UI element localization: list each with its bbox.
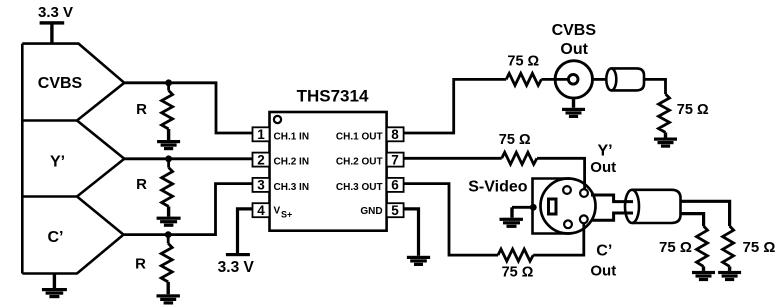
pin 8 box <box>387 127 404 141</box>
resistor 75ohm CH2 <box>502 152 537 164</box>
pin 1 box <box>253 127 270 141</box>
ground RCA <box>562 98 585 118</box>
prong upper S-Video to cable <box>591 195 633 202</box>
connector CVBS Out RCA jack <box>555 61 592 98</box>
node CVBS/R junction <box>165 79 172 86</box>
key slot <box>549 199 557 214</box>
svg-text:C’: C’ <box>48 229 64 246</box>
svg-text:8: 8 <box>391 127 399 142</box>
resistor R1 <box>162 83 173 140</box>
svg-text:THS7314: THS7314 <box>297 87 369 106</box>
svg-text:4: 4 <box>257 203 265 218</box>
wire VS+ pin 4 to 3.3V <box>238 209 253 253</box>
svg-text:3.3 V: 3.3 V <box>38 4 73 21</box>
resistor R2 <box>162 159 173 217</box>
op-amp U1 THS7314 body <box>270 112 387 231</box>
node Y'/R junction <box>165 155 172 162</box>
svg-text:S-Video: S-Video <box>468 178 528 195</box>
pin 2 box <box>253 153 270 167</box>
ground R3 <box>157 294 180 304</box>
connector S-Video DIN circle <box>541 179 596 234</box>
pin 5 box <box>387 203 404 217</box>
svg-text:V: V <box>274 206 281 217</box>
svg-text:GND: GND <box>360 206 382 217</box>
svg-text:R: R <box>135 255 146 272</box>
ground far load <box>718 271 741 281</box>
svg-text:Out: Out <box>590 263 616 280</box>
cable CVBS coax <box>606 68 644 90</box>
svg-text:Out: Out <box>590 159 616 176</box>
pin 7 box <box>387 153 404 167</box>
wire cable to near load <box>681 214 704 226</box>
svg-text:6: 6 <box>391 178 399 193</box>
svg-text:3: 3 <box>257 178 265 193</box>
wire resistor to RCA <box>541 78 573 81</box>
resistor 75ohm near load <box>697 226 708 271</box>
node C'/R junction <box>165 231 172 238</box>
wire cable to load <box>644 79 666 94</box>
svg-text:S+: S+ <box>281 210 292 220</box>
svg-text:2: 2 <box>257 152 265 167</box>
wire C' to pin 3 <box>124 184 253 235</box>
prong lower S-Video to cable <box>591 213 633 220</box>
svg-text:CH.3 OUT: CH.3 OUT <box>336 182 383 193</box>
pin 6 box <box>387 178 404 192</box>
svg-text:75 Ω: 75 Ω <box>507 54 539 70</box>
pin top right <box>580 189 588 197</box>
ground CVBS load <box>654 138 677 148</box>
label C' Out <box>590 242 616 279</box>
svg-text:75 Ω: 75 Ω <box>499 132 531 148</box>
source block CVBS/Y'/C' <box>22 44 124 274</box>
ground near load <box>692 271 715 281</box>
resistor 75ohm CVBS load <box>659 94 670 133</box>
svg-text:1: 1 <box>257 127 265 142</box>
wire cable to far load <box>681 201 730 226</box>
wire pin 5 GND <box>404 209 419 256</box>
svg-text:75 Ω: 75 Ω <box>659 239 692 256</box>
pin 4 box <box>253 203 270 217</box>
svg-text:Y’: Y’ <box>50 154 65 171</box>
svg-text:Y’: Y’ <box>597 142 612 159</box>
svg-text:3.3 V: 3.3 V <box>218 259 255 276</box>
resistor 75ohm far load <box>723 226 734 271</box>
pin 1 indicator <box>274 116 281 123</box>
wire RCA to cable <box>592 78 607 81</box>
pin bottom right <box>580 215 588 223</box>
svg-text:CH.2 OUT: CH.2 OUT <box>336 157 383 168</box>
cable S-Video body <box>625 190 681 223</box>
ground R1 <box>157 140 180 150</box>
node S-Video ground junction <box>530 204 537 211</box>
pin Y' out (top left) <box>563 186 571 194</box>
wire Y' to pin 2 <box>124 157 252 160</box>
svg-text:5: 5 <box>391 203 399 218</box>
pin bottom left <box>564 220 572 228</box>
label CVBS Out <box>552 22 597 58</box>
svg-text:CVBS: CVBS <box>38 75 83 92</box>
wire CVBS to pin 1 <box>124 83 252 133</box>
resistor 75ohm CH3 <box>498 249 533 261</box>
svg-text:75 Ω: 75 Ω <box>677 102 709 118</box>
svg-text:CH.2 IN: CH.2 IN <box>274 157 310 168</box>
svg-text:75 Ω: 75 Ω <box>743 239 776 256</box>
label VS+ <box>274 206 293 220</box>
wire pin 7 to resistor <box>404 157 502 160</box>
wire pin 8 to RCA <box>404 79 507 133</box>
supply 3.3V at pin 4 <box>218 253 255 276</box>
wire S-Video shell to ground <box>512 206 533 209</box>
svg-text:R: R <box>136 176 147 193</box>
resistor 75ohm CH1 <box>506 73 541 85</box>
wire resistor to C' pin <box>533 222 584 255</box>
ground pin 5 <box>407 256 430 266</box>
connector S-Video shell bracket <box>533 179 571 234</box>
svg-text:7: 7 <box>391 152 399 167</box>
resistor R3 <box>161 235 172 295</box>
supply 3.3V top-left <box>38 4 73 44</box>
svg-text:CVBS: CVBS <box>552 22 597 39</box>
svg-text:CH.1 OUT: CH.1 OUT <box>336 131 383 142</box>
svg-text:R: R <box>136 101 147 118</box>
svg-text:C’: C’ <box>596 242 612 259</box>
label Y' Out <box>590 142 616 176</box>
svg-text:CH.3 IN: CH.3 IN <box>274 182 310 193</box>
ground R2 <box>157 217 181 227</box>
ground S-Video <box>500 218 523 228</box>
svg-text:Out: Out <box>560 41 588 58</box>
svg-text:75 Ω: 75 Ω <box>502 264 534 280</box>
ground below source block <box>42 274 67 299</box>
wire resistor to Y' pin <box>537 158 585 190</box>
svg-text:CH.1 IN: CH.1 IN <box>274 131 310 142</box>
pin 3 box <box>253 178 270 192</box>
wire pin 6 to resistor <box>404 184 498 256</box>
